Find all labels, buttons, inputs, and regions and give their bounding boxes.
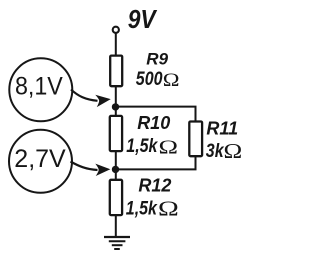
resistor R12 (110, 180, 122, 215)
wire R10 to node B (115, 151, 117, 169)
svg-text:500: 500 (136, 67, 163, 89)
wire R11 bottom to node B (116, 156, 196, 169)
wire (115, 33, 117, 57)
leader wire from 8,1V to node A (71, 90, 98, 101)
svg-text:Ω: Ω (159, 136, 179, 159)
wire (115, 86, 117, 107)
svg-text:Ω: Ω (224, 140, 243, 164)
terminal 9V (113, 27, 119, 33)
svg-text:9V: 9V (128, 6, 158, 35)
node A junction (112, 103, 119, 110)
svg-text:R10: R10 (137, 113, 170, 133)
svg-text:Ω: Ω (158, 197, 179, 220)
arrow to node B (95, 163, 110, 176)
leader wire from 2,7V to node B (71, 162, 98, 171)
resistor R11 (189, 122, 202, 157)
wire R12 to ground (115, 215, 117, 237)
wire node B to R12 (115, 169, 117, 180)
callout bubble 2,7V (9, 130, 72, 193)
svg-text:R12: R12 (138, 175, 171, 195)
svg-text:R9: R9 (146, 49, 168, 68)
callout bubble 8,1V (9, 58, 72, 121)
svg-text:2,7V: 2,7V (14, 145, 66, 173)
wire node A to R10 (115, 107, 117, 116)
svg-text:8,1V: 8,1V (15, 73, 63, 101)
svg-text:R11: R11 (206, 119, 238, 139)
arrow to node A (95, 93, 111, 107)
ground (104, 237, 130, 249)
node B junction (112, 166, 119, 173)
svg-text:3k: 3k (206, 140, 225, 162)
svg-text:Ω: Ω (163, 71, 180, 91)
svg-text:1,5k: 1,5k (126, 135, 158, 157)
wire to R11 branch top (116, 107, 196, 122)
resistor R9 (110, 56, 122, 87)
resistor R10 (110, 116, 122, 151)
svg-text:1,5k: 1,5k (126, 197, 158, 219)
